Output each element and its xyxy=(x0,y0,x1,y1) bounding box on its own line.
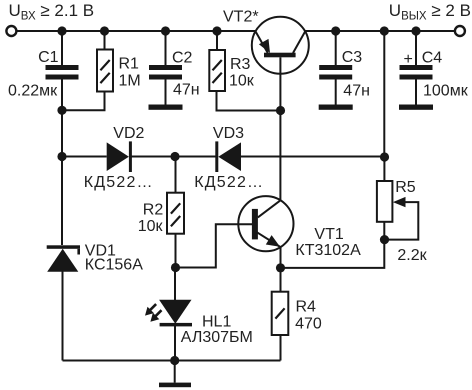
svg-text:КД522…: КД522… xyxy=(194,174,264,191)
wire R4 bottom lead xyxy=(280,335,282,361)
zener diode VD1 xyxy=(47,245,80,271)
wire VT1 emitter lead xyxy=(280,247,282,268)
wire diode row middle segment xyxy=(131,156,215,158)
svg-text:R5: R5 xyxy=(395,179,416,196)
wire VT2 base lead down xyxy=(279,57,281,110)
wire C3 bottom lead xyxy=(335,80,337,105)
transistor VT2 xyxy=(252,17,309,74)
resistor R2 xyxy=(167,193,184,234)
wire base node down to VT1 collector xyxy=(279,111,281,201)
svg-text:10к: 10к xyxy=(138,218,164,235)
svg-text:47н: 47н xyxy=(343,83,370,100)
node R1/C1 junction xyxy=(57,106,66,115)
capacitor C2 xyxy=(149,65,182,80)
svg-text:КС156А: КС156А xyxy=(85,257,143,274)
wire R2 node to VT1 base xyxy=(176,224,253,267)
diode VD3 xyxy=(215,141,241,172)
svg-text:R4: R4 xyxy=(296,299,317,316)
svg-text:100мк: 100мк xyxy=(423,83,469,100)
svg-text:UВХ ≥ 2.1 В: UВХ ≥ 2.1 В xyxy=(9,1,95,23)
node bottom rail/ground xyxy=(170,356,179,365)
node C3 top xyxy=(331,26,340,35)
svg-text:VT1: VT1 xyxy=(314,226,343,243)
wire emitter node to R5 bottom xyxy=(281,222,385,268)
wire R4 top lead xyxy=(280,268,282,292)
node R1 top xyxy=(100,26,109,35)
svg-text:VT2*: VT2* xyxy=(223,9,259,26)
ground symbol xyxy=(159,383,191,388)
svg-text:R1: R1 xyxy=(119,55,140,72)
wire C1 top lead xyxy=(61,31,63,65)
svg-text:C2: C2 xyxy=(172,50,193,67)
wire R5 wiper elbow xyxy=(385,202,419,240)
svg-text:КТ3102А: КТ3102А xyxy=(295,242,361,259)
wire C4 bottom lead xyxy=(415,80,417,105)
wire C2 bottom lead xyxy=(165,80,167,105)
wire R3 bottom lead to base node xyxy=(217,91,281,111)
wire top rail left xyxy=(17,30,256,32)
ground bar under C2 xyxy=(149,105,183,110)
wire ground lead xyxy=(174,361,176,383)
node C4 top xyxy=(411,26,420,35)
wire C4 top lead xyxy=(415,31,417,65)
svg-text:VD2: VD2 xyxy=(113,125,144,142)
svg-text:470: 470 xyxy=(295,316,322,333)
resistor R4 xyxy=(272,292,289,335)
svg-text:C3: C3 xyxy=(342,49,363,66)
wire C3 top lead xyxy=(335,31,337,65)
capacitor C3 xyxy=(319,65,352,80)
wire C1 bottom lead to VD2 node xyxy=(61,80,63,157)
terminal output right xyxy=(455,26,465,36)
node VD2/R2 xyxy=(170,152,179,161)
svg-text:2.2к: 2.2к xyxy=(397,247,427,264)
svg-text:C4: C4 xyxy=(422,50,443,67)
terminal input left xyxy=(6,26,16,36)
svg-text:C1: C1 xyxy=(38,49,59,66)
svg-text:HL1: HL1 xyxy=(202,314,231,331)
node R5 feed top xyxy=(380,26,389,35)
wire R2 top lead xyxy=(175,157,177,193)
svg-text:R2: R2 xyxy=(143,201,164,218)
node VD3/R5 top xyxy=(380,152,389,161)
resistor R1 xyxy=(97,50,113,92)
wire VD1 bottom lead xyxy=(62,272,64,361)
LED HL1 xyxy=(145,300,192,327)
wire R1 top lead xyxy=(104,31,106,50)
svg-text:47н: 47н xyxy=(173,82,200,99)
resistor R3 xyxy=(209,50,225,91)
node R3/VT2 base xyxy=(276,106,285,115)
svg-text:VD3: VD3 xyxy=(213,125,244,142)
svg-text:UВЫХ ≥ 2 В: UВЫХ ≥ 2 В xyxy=(389,1,471,23)
node R2/HL1/base xyxy=(171,263,180,272)
node C2 top xyxy=(161,26,170,35)
wire HL1 bottom lead xyxy=(174,326,176,361)
wire C2 top lead xyxy=(165,31,167,65)
wire bottom rail xyxy=(63,360,281,362)
wire output rail down to R5 node xyxy=(383,31,385,157)
wire diode row left segment xyxy=(62,156,107,158)
node R5 wiper xyxy=(380,235,389,244)
svg-text:R3: R3 xyxy=(230,56,251,73)
wire R5 top lead xyxy=(383,157,385,181)
svg-text:КД522…: КД522… xyxy=(84,174,154,191)
wire diode row right segment crossing to R5 xyxy=(241,156,385,158)
wire R2 bottom lead xyxy=(175,234,177,268)
wire R1 bottom lead L to node xyxy=(62,92,105,111)
diode VD2 xyxy=(107,141,132,172)
node input/C1 xyxy=(57,26,66,35)
svg-text:АЛ307БМ: АЛ307БМ xyxy=(181,329,253,346)
LED emission arrows xyxy=(150,304,162,316)
svg-text:1M: 1M xyxy=(119,73,141,90)
potentiometer R5 xyxy=(377,181,406,222)
transistor VT1 xyxy=(238,196,293,251)
capacitor C1 xyxy=(46,65,79,80)
svg-text:10к: 10к xyxy=(229,73,255,90)
wire VD1 top lead xyxy=(61,157,63,246)
node R3 top xyxy=(212,26,221,35)
svg-text:+: + xyxy=(404,51,413,68)
node VD2 anode xyxy=(57,152,66,161)
wire R3 top lead xyxy=(216,31,218,50)
ground bar under C4 xyxy=(399,105,433,110)
node emitter/R4 xyxy=(276,263,285,272)
ground bar under C3 xyxy=(319,105,353,110)
svg-text:0.22мк: 0.22мк xyxy=(8,82,58,99)
wire top rail right xyxy=(305,30,455,32)
wire HL1 top lead xyxy=(174,268,176,301)
capacitor C4 xyxy=(400,65,433,80)
